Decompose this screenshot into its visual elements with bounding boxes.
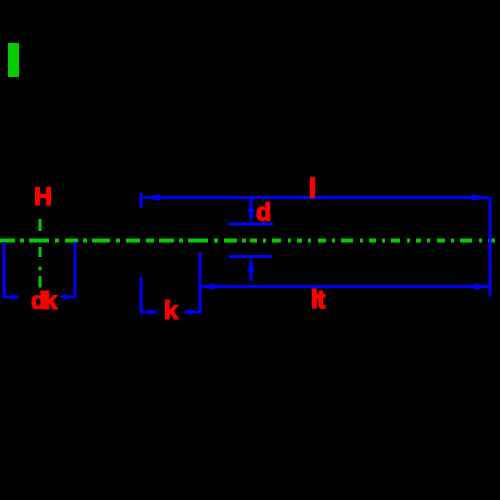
dimension d: arrows (248, 209, 255, 272)
svg-text:l: l (309, 173, 316, 203)
dimension dk: arrows (5, 294, 74, 300)
svg-text:k: k (164, 295, 179, 325)
label H (34, 183, 52, 211)
dimension k: arrows (142, 309, 199, 315)
label lt (311, 284, 326, 314)
centerline vertical (head axis) (39, 219, 42, 288)
green artifact patch (8, 43, 19, 77)
dimension k: extension lines (141, 252, 200, 314)
label dk (31, 287, 58, 315)
dimension dk: extension lines (4, 242, 75, 299)
svg-text:H: H (34, 183, 52, 211)
label d (256, 199, 271, 227)
dimension l: line with end arrows (141, 193, 490, 297)
dimension lt: line with end arrows (202, 285, 488, 288)
dimension d: extension lines (228, 198, 273, 281)
svg-text:lt: lt (311, 284, 326, 314)
svg-text:dk: dk (31, 287, 58, 315)
centerline horizontal (0, 239, 500, 243)
label l (309, 173, 316, 203)
svg-text:d: d (256, 199, 271, 227)
label k (164, 295, 179, 325)
